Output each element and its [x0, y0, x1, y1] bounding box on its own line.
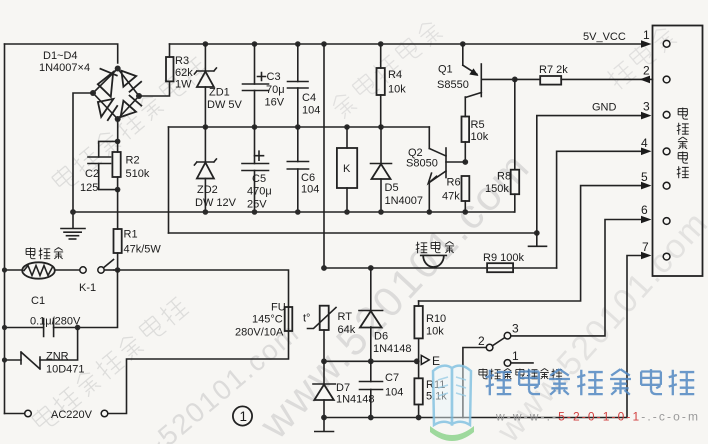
svg-text:D7: D7 — [336, 382, 350, 394]
wire: heater line to FU — [114, 267, 289, 307]
svg-text:64k: 64k — [338, 324, 356, 336]
svg-text:R3: R3 — [175, 55, 189, 67]
svg-text:1: 1 — [240, 409, 248, 424]
capacitor C2 — [80, 141, 118, 194]
svg-text:R4: R4 — [388, 69, 402, 81]
svg-text:2: 2 — [478, 334, 485, 348]
svg-text:DW 12V: DW 12V — [195, 197, 237, 209]
diode D5 — [371, 127, 424, 212]
wire: 12V mid rail — [169, 124, 430, 130]
svg-text:1N4148: 1N4148 — [373, 343, 412, 355]
svg-text:125: 125 — [80, 182, 98, 194]
zener ZD1 — [194, 44, 242, 127]
relay K — [337, 127, 357, 212]
capacitor C5 — [242, 127, 272, 212]
wire: 5V_VCC top rail — [170, 41, 642, 47]
wire: E sense line — [321, 358, 420, 364]
svg-text:6: 6 — [641, 203, 648, 217]
wire: RT feed line from top rail — [323, 44, 325, 268]
ground of sensor line — [315, 418, 334, 432]
AC220V terminals — [5, 409, 108, 421]
capacitor C4 — [288, 44, 321, 127]
svg-text:R6: R6 — [447, 177, 461, 189]
resistor R11 — [414, 361, 447, 417]
resistor R3 — [166, 44, 193, 91]
pin 7 — [641, 240, 670, 260]
svg-text:AC220V: AC220V — [51, 409, 93, 421]
svg-text:DW 5V: DW 5V — [207, 99, 243, 111]
svg-text:1N4148: 1N4148 — [336, 394, 375, 406]
transistor Q2 S8050 — [406, 127, 465, 212]
pin 2 — [640, 64, 670, 84]
watermark: blue site name bottom-right — [486, 369, 695, 395]
svg-text:1: 1 — [643, 28, 650, 42]
svg-text:510k: 510k — [126, 168, 150, 180]
svg-text:104: 104 — [385, 387, 403, 399]
svg-text:ZD2: ZD2 — [197, 184, 218, 196]
svg-text:C6: C6 — [301, 172, 315, 184]
svg-text:2: 2 — [643, 64, 650, 78]
watermark: book logo — [430, 366, 474, 441]
svg-text:4: 4 — [641, 136, 648, 150]
svg-text:ZD1: ZD1 — [209, 87, 230, 99]
wire: R2 to ground rail crossing to R1 — [117, 190, 119, 229]
label: to control panel (vertical) — [677, 108, 689, 179]
svg-text:3: 3 — [512, 322, 519, 336]
svg-text:FU: FU — [271, 302, 286, 314]
svg-text:Q1: Q1 — [438, 64, 453, 76]
svg-text:C3: C3 — [267, 71, 281, 83]
svg-text:R5: R5 — [471, 119, 485, 131]
svg-text:62k: 62k — [175, 67, 193, 79]
svg-text:470μ: 470μ — [247, 186, 272, 198]
svg-text:RT: RT — [338, 311, 353, 323]
svg-text:7: 7 — [642, 240, 649, 254]
wire: left mains rail — [4, 44, 6, 414]
svg-text:5: 5 — [641, 170, 648, 184]
wire: sense return to pin 7 — [324, 256, 642, 418]
wire: buzzer line to pin 4 — [557, 151, 642, 268]
heating element — [2, 262, 80, 278]
svg-text:10k: 10k — [388, 84, 406, 96]
watermark: diagonal site name top-right partial — [604, 24, 678, 91]
watermark: diagonal site name top-left — [50, 55, 209, 194]
svg-text:5V_VCC: 5V_VCC — [583, 31, 626, 43]
wire: sensor return bottom line — [321, 415, 421, 421]
svg-text:C2: C2 — [85, 168, 99, 180]
capacitor C3 — [243, 44, 285, 127]
svg-text:10D471: 10D471 — [46, 364, 85, 376]
resistor R4 — [377, 44, 407, 127]
svg-text:S8550: S8550 — [437, 79, 469, 91]
diode D7 — [313, 361, 375, 417]
svg-text:3: 3 — [643, 100, 650, 114]
capacitor C6 — [287, 127, 319, 212]
fuse FU — [235, 302, 292, 339]
svg-text:C7: C7 — [385, 372, 399, 384]
varistor ZNR — [2, 328, 85, 376]
buzzer — [421, 255, 447, 267]
svg-text:S8050: S8050 — [406, 158, 438, 170]
svg-text:47k: 47k — [442, 191, 460, 203]
bimetal thermostat contacts — [463, 322, 533, 418]
svg-text:K: K — [343, 163, 351, 175]
svg-text:C5: C5 — [252, 173, 266, 185]
pin 4 — [641, 136, 670, 155]
wire: gnd bus — [169, 230, 540, 236]
svg-text:145°C: 145°C — [252, 314, 283, 326]
svg-text:104: 104 — [302, 105, 320, 117]
label bimetal thermostat — [479, 368, 562, 379]
svg-text:1N4007: 1N4007 — [385, 195, 424, 207]
connector box to control panel — [653, 26, 703, 277]
svg-text:w-w-w-.-5-2-0-1-0-1-.-c-o-m: w-w-w-.-5-2-0-1-0-1-.-c-o-m — [495, 410, 700, 424]
svg-text:104: 104 — [301, 184, 319, 196]
svg-text:280V/10A: 280V/10A — [235, 327, 284, 339]
svg-text:R1: R1 — [124, 229, 138, 241]
wire: buzzer line B — [321, 265, 556, 271]
svg-text:1N4007×4: 1N4007×4 — [39, 62, 90, 74]
svg-text:t°: t° — [303, 313, 310, 325]
svg-text:1: 1 — [512, 349, 519, 363]
switch K-1 — [79, 260, 114, 295]
svg-text:D1~D4: D1~D4 — [43, 50, 78, 62]
resistor R8 — [485, 79, 519, 212]
wire: R10 drive to pin 5 — [419, 186, 642, 301]
svg-text:K-1: K-1 — [79, 282, 96, 294]
ground of gnd bus — [529, 233, 547, 246]
svg-text:10k: 10k — [426, 326, 444, 338]
wire: FU to AC terminal — [108, 331, 289, 414]
label heater — [26, 248, 63, 260]
resistor R1 — [114, 229, 162, 271]
svg-text:25V: 25V — [247, 199, 267, 211]
svg-text:R10: R10 — [426, 313, 446, 325]
wire: bridge bottom to R2 — [115, 119, 121, 144]
thermistor RT — [303, 306, 356, 362]
capacitor C7 — [360, 361, 404, 417]
wire: negative bottom rail — [70, 209, 514, 215]
wire: bridge left node to ground — [73, 93, 93, 228]
capacitor C1 — [2, 270, 118, 337]
svg-text:1W: 1W — [175, 79, 192, 91]
wire: top-left AC feed to bridge — [5, 44, 118, 63]
pin 3 — [641, 100, 670, 120]
svg-text:47k/5W: 47k/5W — [124, 244, 162, 256]
resistor R2 — [112, 141, 149, 192]
wire: thermostat 3 to pin 6 — [511, 220, 642, 336]
svg-text:ZNR: ZNR — [46, 351, 69, 363]
svg-text:10k: 10k — [471, 131, 489, 143]
svg-text:C1: C1 — [31, 295, 45, 307]
resistor R7 — [515, 64, 642, 85]
watermark: diagonal site name top-center partial — [329, 18, 444, 120]
svg-text:R2: R2 — [126, 155, 140, 167]
resistor R6 — [442, 176, 469, 212]
svg-text:R7 2k: R7 2k — [539, 64, 568, 76]
wire: mid rail left drop to gnd bus — [168, 127, 170, 233]
svg-text:GND: GND — [592, 102, 617, 114]
svg-text:R9 100k: R9 100k — [483, 252, 524, 264]
svg-text:0.1μ/280V: 0.1μ/280V — [30, 316, 81, 328]
svg-text:R8: R8 — [497, 171, 511, 183]
pin 1 — [641, 28, 670, 48]
resistor R5 — [462, 117, 489, 165]
svg-text:150k: 150k — [485, 183, 509, 195]
figure number 1 — [233, 406, 252, 425]
wire: GND to pin 3 — [537, 116, 642, 233]
watermark: diagonal site name bottom-left — [30, 295, 189, 434]
ground — [61, 229, 85, 240]
resistor R9 — [483, 252, 524, 272]
svg-text:C4: C4 — [302, 92, 316, 104]
node E arrow — [421, 354, 440, 368]
svg-text:D5: D5 — [385, 182, 399, 194]
pin 5 — [641, 170, 670, 189]
resistor R10 — [414, 301, 446, 361]
transistor Q1 S8550 — [437, 44, 518, 117]
svg-text:70μ: 70μ — [266, 84, 285, 96]
svg-text:D6: D6 — [374, 331, 388, 343]
bridge rectifier D1-D4 — [39, 50, 142, 122]
svg-text:16V: 16V — [265, 97, 285, 109]
pin 6 — [641, 203, 670, 224]
wire: bridge right node to R3 — [139, 81, 170, 96]
label buzzer — [416, 242, 454, 254]
diode D6 — [359, 268, 412, 361]
zener ZD2 — [194, 127, 236, 212]
